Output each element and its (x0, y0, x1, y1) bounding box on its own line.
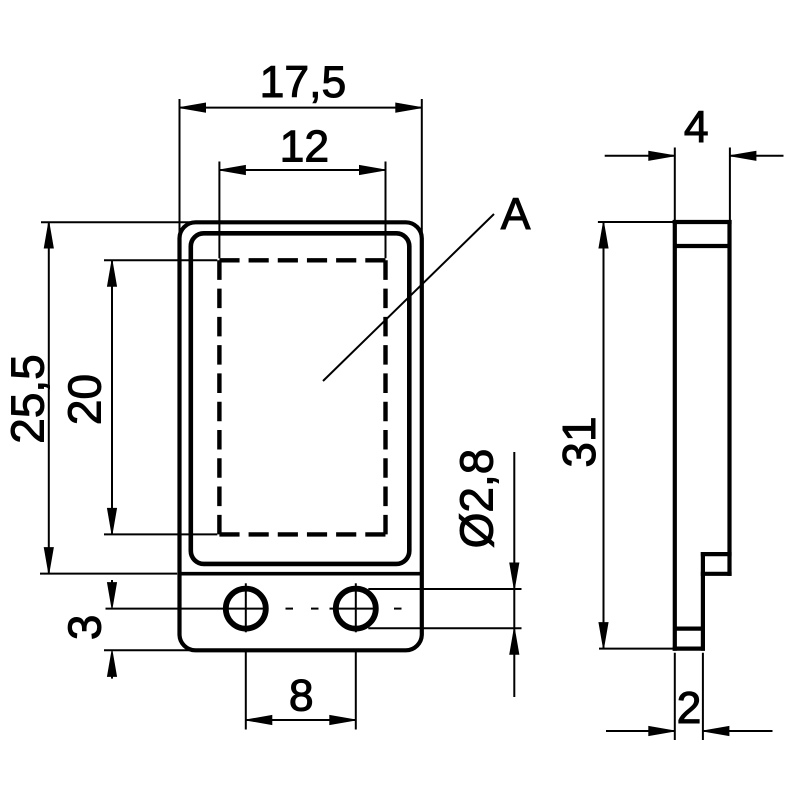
svg-text:A: A (501, 190, 531, 239)
svg-text:4: 4 (684, 103, 709, 152)
svg-text:17,5: 17,5 (260, 58, 347, 107)
svg-text:25,5: 25,5 (2, 354, 54, 444)
svg-text:20: 20 (59, 374, 111, 425)
svg-text:31: 31 (553, 416, 605, 467)
svg-text:Ø2,8: Ø2,8 (451, 449, 503, 549)
svg-text:12: 12 (280, 122, 330, 171)
svg-text:8: 8 (289, 672, 314, 721)
svg-text:3: 3 (59, 615, 111, 641)
svg-text:2: 2 (677, 684, 702, 733)
